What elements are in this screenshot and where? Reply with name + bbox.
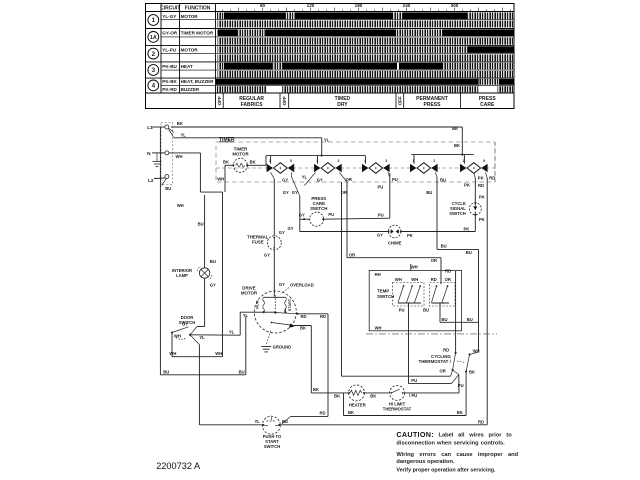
svg-text:SWITCH: SWITCH [377, 294, 394, 299]
svg-text:GY: GY [288, 226, 294, 231]
svg-text:YL: YL [302, 175, 308, 180]
svg-text:PK: PK [478, 175, 484, 180]
svg-text:OFF: OFF [217, 96, 222, 105]
svg-text:BU: BU [423, 307, 429, 312]
svg-text:YL-PU: YL-PU [162, 47, 176, 52]
svg-text:BUZZER: BUZZER [181, 87, 200, 92]
svg-text:TEMP: TEMP [377, 288, 389, 293]
svg-text:WH: WH [395, 277, 402, 282]
svg-text:MOTOR: MOTOR [181, 47, 199, 52]
svg-text:RD: RD [443, 348, 449, 353]
svg-text:4: 4 [152, 83, 156, 90]
svg-text:GY: GY [292, 190, 298, 195]
svg-text:OR: OR [445, 277, 451, 282]
svg-text:WH: WH [176, 154, 183, 159]
svg-text:YL: YL [181, 132, 187, 137]
svg-text:3: 3 [337, 159, 339, 163]
svg-text:YL-GY: YL-GY [162, 14, 176, 19]
svg-text:2: 2 [433, 159, 435, 163]
svg-text:HEATER: HEATER [349, 403, 366, 408]
svg-text:RD: RD [320, 314, 326, 319]
svg-text:CIRCUIT: CIRCUIT [160, 6, 180, 12]
svg-text:BK: BK [313, 387, 319, 392]
svg-text:GY: GY [210, 282, 216, 287]
svg-text:4: 4 [364, 159, 366, 163]
svg-text:GY: GY [377, 233, 383, 238]
svg-text:PU: PU [392, 177, 398, 182]
svg-text:BK: BK [457, 410, 463, 415]
svg-text:PK: PK [479, 195, 485, 200]
svg-text:N: N [147, 151, 151, 157]
svg-text:BU: BU [441, 317, 447, 322]
svg-text:GY: GY [182, 321, 188, 326]
svg-text:Label all wires prior to: Label all wires prior to [439, 433, 513, 439]
svg-text:RD: RD [445, 269, 451, 274]
svg-text:THERMOSTAT: THERMOSTAT [383, 407, 412, 412]
svg-text:OVERLOAD: OVERLOAD [290, 283, 314, 288]
svg-text:RD: RD [300, 314, 306, 319]
svg-text:BU: BU [426, 190, 432, 195]
svg-text:BU: BU [441, 244, 447, 249]
svg-text:3: 3 [152, 67, 156, 74]
svg-text:180: 180 [355, 3, 363, 8]
svg-text:WH: WH [375, 326, 382, 331]
svg-text:PK-BK: PK-BK [162, 79, 177, 84]
svg-text:WH: WH [169, 351, 176, 356]
svg-text:BK: BK [370, 393, 376, 398]
svg-text:1: 1 [269, 159, 271, 163]
svg-text:L1: L1 [147, 125, 153, 131]
svg-text:THERMOSTAT /: THERMOSTAT / [419, 359, 452, 364]
svg-text:PRESS: PRESS [424, 102, 442, 108]
svg-text:OR: OR [346, 177, 352, 182]
svg-text:OFF: OFF [282, 96, 287, 105]
svg-text:MOTOR: MOTOR [232, 152, 249, 157]
svg-text:1: 1 [412, 159, 414, 163]
svg-text:DRY: DRY [337, 102, 348, 108]
svg-text:WH: WH [174, 333, 181, 338]
svg-text:3: 3 [385, 159, 387, 163]
svg-text:/ PU: / PU [409, 393, 417, 398]
svg-text:GY: GY [279, 282, 285, 287]
svg-text:RD: RD [478, 419, 484, 424]
svg-text:WH: WH [411, 277, 418, 282]
svg-text:TIMER MOTOR: TIMER MOTOR [181, 31, 214, 36]
svg-text:BK: BK [334, 393, 340, 398]
svg-text:HEAT, BUZZER: HEAT, BUZZER [181, 79, 215, 84]
svg-text:SWITCH: SWITCH [449, 211, 466, 216]
svg-text:BK: BK [469, 370, 475, 375]
svg-text:CAUTION:: CAUTION: [396, 430, 434, 439]
svg-text:2200732 A: 2200732 A [156, 461, 201, 471]
svg-text:HEAT: HEAT [181, 64, 193, 69]
svg-text:YL: YL [229, 329, 235, 334]
svg-text:240: 240 [403, 3, 411, 8]
svg-text:PU: PU [399, 307, 405, 312]
svg-text:WH: WH [411, 264, 418, 269]
svg-text:2: 2 [316, 159, 318, 163]
svg-text:BK: BK [348, 410, 354, 415]
svg-text:2: 2 [152, 51, 156, 58]
svg-text:BU: BU [210, 259, 216, 264]
svg-text:GY: GY [279, 230, 285, 235]
svg-text:BK: BK [250, 160, 256, 165]
svg-text:BU: BU [163, 370, 169, 375]
svg-text:BU: BU [467, 317, 473, 322]
svg-text:BK: BK [452, 126, 458, 131]
svg-text:PK: PK [407, 233, 413, 238]
svg-text:WH: WH [215, 351, 222, 356]
svg-text:CHIME: CHIME [388, 240, 402, 245]
svg-text:300: 300 [451, 3, 459, 8]
svg-text:5: 5 [290, 159, 292, 163]
svg-text:Wiring errors can cause improp: Wiring errors can cause improper and [396, 452, 518, 458]
svg-text:FABRICS: FABRICS [241, 102, 264, 108]
svg-text:6: 6 [483, 159, 485, 163]
svg-text:YL: YL [199, 335, 205, 340]
svg-text:BK: BK [300, 326, 306, 331]
svg-text:BK: BK [177, 121, 183, 126]
svg-text:PK: PK [479, 217, 485, 222]
svg-text:PU: PU [378, 212, 384, 217]
svg-text:WH: WH [177, 203, 184, 208]
svg-text:Verify proper operation after: Verify proper operation after servicing. [396, 467, 496, 473]
svg-text:OFF: OFF [398, 96, 403, 105]
svg-text:YL: YL [254, 419, 260, 424]
svg-text:PU: PU [377, 184, 383, 189]
svg-text:dangerous operation.: dangerous operation. [396, 459, 455, 465]
svg-text:GY: GY [283, 190, 289, 195]
svg-text:PK: PK [463, 227, 469, 232]
svg-text:BU: BU [466, 250, 472, 255]
svg-text:BU: BU [440, 178, 446, 183]
svg-text:GY: GY [264, 252, 270, 257]
svg-text:GROUND: GROUND [273, 344, 292, 349]
svg-text:1: 1 [152, 17, 156, 24]
svg-text:GY: GY [299, 213, 305, 218]
svg-text:SWITCH: SWITCH [264, 444, 281, 449]
svg-text:GY-OR: GY-OR [162, 31, 177, 36]
svg-text:START: START [288, 298, 292, 311]
svg-text:MOTOR: MOTOR [241, 291, 258, 296]
svg-text:FUNCTION: FUNCTION [185, 6, 211, 12]
svg-text:OR: OR [349, 252, 355, 257]
svg-text:BK: BK [454, 143, 460, 148]
svg-text:GY: GY [282, 177, 288, 182]
svg-text:WH: WH [217, 176, 224, 181]
svg-text:60: 60 [260, 3, 266, 8]
svg-text:OR: OR [440, 369, 446, 374]
svg-text:disconnection when servicing c: disconnection when servicing controls. [396, 441, 505, 447]
svg-text:LAMP: LAMP [176, 273, 188, 278]
svg-text:PK: PK [464, 183, 470, 188]
svg-text:L2: L2 [148, 178, 154, 184]
svg-text:MOTOR: MOTOR [181, 14, 199, 19]
svg-text:PK-RD: PK-RD [162, 87, 177, 92]
svg-text:CARE: CARE [480, 102, 495, 108]
svg-text:RD: RD [431, 277, 437, 282]
svg-text:BK: BK [223, 159, 229, 164]
svg-text:1: 1 [462, 159, 464, 163]
svg-text:1A: 1A [150, 35, 157, 41]
svg-text:BU: BU [165, 186, 171, 191]
svg-text:PK-BU: PK-BU [162, 64, 177, 69]
svg-text:120: 120 [307, 3, 315, 8]
svg-text:BU: BU [198, 222, 204, 227]
svg-text:RH: RH [375, 272, 381, 277]
svg-text:RD: RD [489, 175, 495, 180]
svg-text:PU: PU [328, 212, 334, 217]
svg-text:RD: RD [319, 410, 325, 415]
svg-text:RUN: RUN [256, 300, 260, 308]
svg-text:OR: OR [431, 258, 437, 263]
svg-text:GY: GY [317, 178, 323, 183]
svg-text:YL: YL [243, 313, 249, 318]
svg-text:SWITCH: SWITCH [310, 206, 327, 211]
svg-text:FUSE: FUSE [252, 240, 264, 245]
svg-text:PU: PU [411, 378, 417, 383]
svg-text:RD: RD [478, 183, 484, 188]
svg-text:BU: BU [239, 370, 245, 375]
